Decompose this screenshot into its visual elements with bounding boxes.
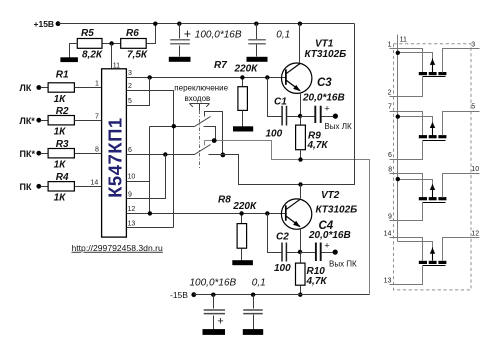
- node R8 top: [239, 211, 243, 215]
- wire ЛК to R1: [41, 87, 49, 89]
- switch SA1.1 upper arm: [195, 117, 211, 127]
- node pin3 junction: [148, 75, 152, 79]
- wire pin 12 to VT2 base: [127, 213, 286, 215]
- ground at bottom 0,1 cap: [243, 329, 263, 335]
- svg-text:6: 6: [388, 152, 392, 159]
- node R7 top: [240, 75, 244, 79]
- transistor switch cell 4: [390, 238, 480, 285]
- svg-text:2: 2: [128, 83, 132, 90]
- ground at R5: [60, 57, 78, 62]
- wire C1 riser: [268, 78, 282, 117]
- node pin6/9 junction: [163, 152, 167, 156]
- svg-text:R8: R8: [218, 195, 231, 206]
- svg-text:100,0*16В: 100,0*16В: [190, 278, 237, 289]
- svg-text:3: 3: [128, 70, 132, 77]
- switch actuator bracket: [190, 104, 210, 111]
- transistor VT1: [282, 39, 347, 94]
- node R5/R6 junction: [109, 41, 113, 45]
- svg-text:10: 10: [471, 166, 479, 173]
- resistor R8: [218, 195, 257, 261]
- dashed box of switch cells: [394, 44, 472, 290]
- svg-text:входов: входов: [185, 94, 211, 103]
- capacitor C3: [301, 77, 345, 123]
- node V1 on pin12 wire: [148, 211, 152, 215]
- node R10 bottom on -15V rail: [298, 293, 302, 297]
- resistor R6: [121, 28, 148, 61]
- svg-text:К547КП1: К547КП1: [104, 117, 125, 198]
- capacitor C4: [301, 220, 351, 261]
- wire VT1 emitter down: [300, 93, 302, 117]
- pin labels cell 3: [388, 166, 479, 221]
- svg-text:-15В: -15В: [170, 290, 188, 300]
- wire ПК to R4: [41, 186, 49, 188]
- resistor R5: [77, 28, 103, 61]
- svg-text:1К: 1К: [54, 127, 67, 138]
- svg-text:КТ3102Б: КТ3102Б: [316, 205, 358, 216]
- wire pin 5 riser to pin 3: [127, 78, 150, 106]
- svg-text:1К: 1К: [54, 160, 67, 171]
- svg-text:20,0*16В: 20,0*16В: [308, 230, 351, 241]
- svg-text:220К: 220К: [232, 201, 257, 212]
- wire R4 to pin 14: [75, 186, 102, 188]
- svg-text:R1: R1: [56, 70, 69, 81]
- resistor R4: [48, 172, 74, 204]
- svg-text:С2: С2: [276, 232, 289, 243]
- wire pin 3 to VT1 base: [127, 77, 286, 79]
- resistor R1: [48, 70, 74, 106]
- wire switch common riser V1: [149, 127, 151, 214]
- svg-text:1К: 1К: [54, 193, 67, 204]
- label переключение входов: [174, 84, 228, 104]
- svg-text:+: +: [184, 27, 191, 41]
- wire VT1 collector: [299, 24, 301, 63]
- input node ЛК*: [20, 116, 42, 126]
- node B-net junction: [212, 138, 217, 143]
- wire C2 to emitter node: [287, 252, 301, 254]
- svg-text:8: 8: [388, 167, 392, 174]
- svg-text:12: 12: [471, 231, 479, 238]
- wire pin 9 riser to pin 6: [127, 155, 166, 199]
- svg-text:ЛК: ЛК: [20, 83, 32, 93]
- svg-text:100: 100: [274, 263, 291, 274]
- pin labels cell 1: [388, 42, 476, 97]
- svg-text:С3: С3: [317, 77, 332, 89]
- svg-text:13: 13: [384, 278, 392, 285]
- resistor R9: [296, 117, 329, 160]
- svg-text:ПК*: ПК*: [20, 149, 36, 159]
- wire lower in-line contact to +15V feed: [209, 155, 301, 185]
- node lower contact junction: [221, 153, 226, 158]
- svg-text:+: +: [324, 104, 329, 114]
- svg-text:7,5К: 7,5К: [127, 50, 148, 61]
- svg-text:R5: R5: [81, 28, 94, 39]
- node VT1 base / C1 riser: [265, 75, 269, 79]
- switch SA1.2 lower arm: [195, 145, 211, 155]
- svg-text:http://299792458.3dn.ru: http://299792458.3dn.ru: [72, 243, 163, 253]
- svg-text:8,2К: 8,2К: [82, 50, 103, 61]
- ground at 0,1 cap: [247, 57, 268, 62]
- wire +15V top rail: [59, 23, 355, 25]
- svg-text:Вых ЛК: Вых ЛК: [324, 122, 352, 131]
- node VT2 collector junction: [298, 182, 302, 186]
- svg-text:R7: R7: [214, 60, 227, 71]
- svg-text:C1: C1: [274, 97, 287, 108]
- node +15V terminal: [34, 19, 61, 29]
- svg-text:7: 7: [388, 104, 392, 111]
- wire VT2 emitter down: [300, 229, 302, 252]
- node output Вых ПК: [329, 250, 357, 269]
- switch actuator dash-dot link: [199, 111, 201, 169]
- transistor VT2: [281, 190, 357, 229]
- svg-text:+: +: [217, 315, 223, 327]
- wire R6 right to rail: [147, 24, 156, 44]
- input node ПК*: [20, 149, 42, 159]
- node VT2 emitter: [298, 250, 302, 254]
- svg-text:VT2: VT2: [321, 190, 340, 201]
- svg-text:100,0*16В: 100,0*16В: [195, 30, 242, 41]
- svg-text:Вых ПК: Вых ПК: [329, 260, 357, 269]
- transistor switch cell 2: [390, 112, 480, 160]
- capacitor C1: [266, 97, 288, 140]
- wire ПК* to R3: [41, 153, 49, 155]
- input node ЛК: [20, 83, 42, 93]
- node VT1 collector on rail: [298, 22, 302, 26]
- resistor R2: [48, 106, 74, 138]
- op-amp U1 К547КП1 IC body: [102, 69, 127, 237]
- resistor R10: [296, 252, 328, 295]
- svg-text:11: 11: [113, 63, 120, 70]
- pin labels cell 2: [388, 104, 475, 160]
- capacitor 0,1 bottom: [243, 278, 266, 330]
- wire ЛК* to R2: [41, 120, 49, 122]
- wire R5 left to ground: [70, 44, 78, 58]
- wire VT2 collector: [300, 185, 302, 199]
- svg-text:14: 14: [384, 231, 392, 238]
- wire +15V feed down to VT2 collector: [301, 24, 355, 185]
- svg-text:1К: 1К: [54, 94, 67, 105]
- capacitor 0,1 top: [248, 22, 290, 57]
- ground at bottom electrolytic: [203, 329, 226, 335]
- svg-text:VT1: VT1: [315, 39, 334, 50]
- svg-text:9: 9: [128, 192, 132, 199]
- svg-text:5: 5: [128, 98, 132, 105]
- svg-text:1: 1: [388, 42, 392, 49]
- transistor switch cell 1: [390, 49, 480, 97]
- switch SA1.1 throw contact B tick: [204, 127, 216, 140]
- svg-text:12: 12: [128, 206, 136, 213]
- svg-text:0,1: 0,1: [276, 30, 290, 41]
- wire R2 to pin 7: [75, 120, 102, 122]
- node -15V terminal: [170, 290, 196, 300]
- svg-text:220К: 220К: [234, 64, 259, 75]
- svg-text:4,7К: 4,7К: [307, 140, 329, 151]
- svg-text:6: 6: [128, 147, 132, 154]
- wire C2 riser: [268, 214, 282, 253]
- capacitor 100,0*16В bottom electrolytic: [190, 278, 237, 330]
- svg-text:5: 5: [471, 104, 475, 111]
- ground at R7: [233, 126, 253, 131]
- wire B-net to emitter rail: [205, 141, 370, 295]
- wire R3 to pin 8: [75, 153, 102, 155]
- svg-text:4,7К: 4,7К: [306, 276, 328, 287]
- svg-text:+15В: +15В: [34, 19, 55, 29]
- svg-text:100: 100: [266, 129, 283, 140]
- capacitor C2: [274, 232, 291, 275]
- node VT2 base / C2 riser: [265, 211, 269, 215]
- wire pin 13 to riser: [127, 227, 174, 229]
- node output Вых ЛК: [324, 114, 352, 132]
- svg-text:R6: R6: [126, 28, 139, 39]
- wire C1 to emitter node: [287, 116, 301, 118]
- resistor R7: [214, 60, 258, 127]
- svg-text:13: 13: [128, 221, 136, 228]
- svg-text:3: 3: [471, 42, 475, 49]
- svg-text:11: 11: [400, 37, 407, 44]
- wire to pin 11: [111, 44, 113, 69]
- pin 11 gate bus: [397, 35, 399, 242]
- wire pin 2 riser to switch: [127, 91, 174, 228]
- svg-text:ПК: ПК: [20, 182, 32, 192]
- node R9 bottom on rail: [298, 157, 302, 161]
- svg-text:2: 2: [388, 90, 392, 97]
- svg-text:+: +: [324, 241, 329, 251]
- svg-text:ЛК*: ЛК*: [20, 116, 36, 126]
- svg-text:10: 10: [128, 174, 136, 181]
- wire pin 10: [127, 181, 150, 183]
- wire pin 6 to switch pole: [127, 154, 195, 156]
- svg-text:0,1: 0,1: [252, 278, 266, 289]
- wire -15V rail: [194, 294, 370, 296]
- svg-text:9: 9: [388, 214, 392, 221]
- svg-text:8: 8: [95, 147, 99, 154]
- svg-text:20,0*16В: 20,0*16В: [302, 92, 345, 103]
- input node ПК: [20, 182, 42, 192]
- switch SA1.2 upper contact tick to B-net: [204, 141, 206, 146]
- ground at top electrolytic: [169, 57, 191, 62]
- resistor R3: [48, 139, 74, 171]
- wire upper pole: [150, 126, 195, 128]
- svg-text:переключение: переключение: [174, 84, 228, 93]
- svg-text:14: 14: [91, 180, 99, 187]
- node rail/R6: [153, 22, 157, 26]
- svg-text:7: 7: [95, 114, 99, 121]
- svg-text:КТ3102Б: КТ3102Б: [305, 49, 347, 60]
- node VT1 emitter: [298, 114, 302, 118]
- pin labels cell 4: [384, 231, 480, 285]
- wire R5-R6 junction: [103, 43, 121, 45]
- wire R1 to pin 1: [75, 87, 102, 89]
- ground at R8: [232, 260, 253, 265]
- transistor switch cell 3: [390, 174, 480, 221]
- node 4-way switch junction: [172, 124, 176, 128]
- switch SA1.1 throw contact A: [205, 112, 223, 155]
- svg-text:1: 1: [95, 81, 99, 88]
- capacitor 100,0*16В top electrolytic: [170, 22, 242, 57]
